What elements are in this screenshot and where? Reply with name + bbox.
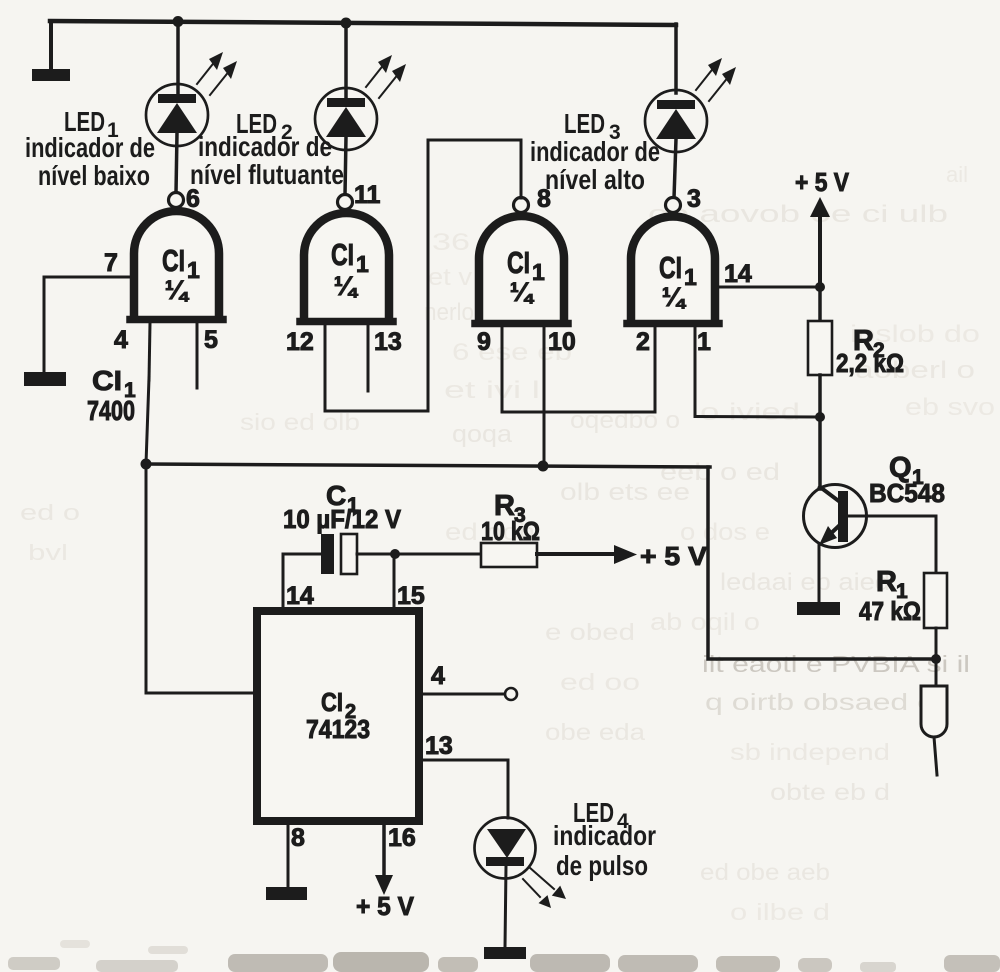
wire: pin15 stub <box>393 554 396 607</box>
svg-text:o ilbe d: o ilbe d <box>730 899 830 925</box>
svg-text:74123: 74123 <box>306 714 370 744</box>
svg-text:3: 3 <box>687 185 701 213</box>
svg-text:sio ed olb: sio ed olb <box>240 409 360 435</box>
svg-text:CI: CI <box>331 237 354 272</box>
op gate CI1a (NAND 1/4 7400) <box>130 193 223 320</box>
node: junction bus/gate3 pin10 <box>538 461 549 472</box>
svg-text:36: 36 <box>432 229 470 256</box>
svg-text:7400: 7400 <box>87 395 135 426</box>
node: junction bus/gate1 pin4 <box>141 459 152 470</box>
capacitor C1 <box>321 534 357 574</box>
svg-text:¼: ¼ <box>662 282 687 312</box>
svg-text:bvl: bvl <box>28 540 68 565</box>
svg-text:2: 2 <box>636 328 650 356</box>
svg-text:ed obe aeb: ed obe aeb <box>700 859 830 885</box>
wire: probe tail <box>934 737 937 775</box>
wire: rail corner down to LED3 <box>674 24 678 93</box>
wire: pin 1 to R2 bottom <box>695 415 820 419</box>
wire: LED4 to ground <box>505 866 506 947</box>
svg-text:14: 14 <box>286 582 314 610</box>
pin 7 wire (gate1 left input) <box>44 277 130 372</box>
svg-text:de pulso: de pulso <box>556 850 648 881</box>
svg-text:ed o: ed o <box>20 500 80 525</box>
node: junction R2/pin1/collector <box>815 412 825 422</box>
wire: pin 13 to LED4 <box>423 760 508 818</box>
wire: long NAND input bus <box>146 464 710 467</box>
svg-text:1: 1 <box>356 251 369 277</box>
wire: R2 to Q1 collector <box>818 417 822 489</box>
LED LED1 <box>146 84 208 146</box>
svg-text:¼: ¼ <box>510 277 535 307</box>
resistor R3 <box>481 543 537 567</box>
svg-text:7: 7 <box>104 249 118 277</box>
svg-text:4: 4 <box>431 662 445 690</box>
svg-text:2,2 kΩ: 2,2 kΩ <box>836 348 904 378</box>
svg-text:BC548: BC548 <box>869 478 945 508</box>
svg-text:CI: CI <box>92 365 122 396</box>
light arrows LED4 <box>523 867 566 908</box>
svg-text:CI: CI <box>659 250 682 285</box>
svg-text:ilt eaotl e PVBIA si il: ilt eaotl e PVBIA si il <box>702 651 970 677</box>
IC CI2 74123 <box>257 611 419 821</box>
node: junction LED2/top rail <box>341 18 352 29</box>
pin 5 stub gate1 <box>196 323 199 388</box>
pin 1 stub gate4 <box>694 327 697 416</box>
svg-text:et ivi l: et ivi l <box>444 377 540 404</box>
svg-text:obe eda: obe eda <box>545 719 645 745</box>
svg-text:q oirtb obsaed o: q oirtb obsaed o <box>705 689 935 715</box>
power +5V arrow (pin 16) <box>375 825 393 895</box>
svg-text:CI: CI <box>162 243 185 278</box>
svg-text:1: 1 <box>187 257 200 283</box>
wire: LED3 to gate CI1d output <box>674 139 676 198</box>
svg-text:nível baixo: nível baixo <box>38 160 150 191</box>
svg-text:CI: CI <box>507 245 530 280</box>
svg-text:12: 12 <box>286 328 314 356</box>
power +5V arrow (top right) <box>810 197 830 287</box>
svg-text:13: 13 <box>374 328 402 356</box>
svg-text:14: 14 <box>724 260 752 288</box>
svg-text:o ivied: o ivied <box>700 399 800 426</box>
svg-text:10 kΩ: 10 kΩ <box>481 516 540 546</box>
wire: Q1 base to R1 <box>848 516 936 573</box>
svg-text:et v: et v <box>428 264 472 291</box>
wire+arrow: R3 to +5V <box>537 545 637 564</box>
svg-text:13: 13 <box>425 732 453 760</box>
svg-text:indicador: indicador <box>553 820 656 851</box>
LED LED4 <box>475 818 536 879</box>
pin 13 stub gate2 <box>367 325 370 391</box>
ground (top left) <box>32 69 70 81</box>
wire: R1 to sense node <box>935 628 938 659</box>
svg-text:16: 16 <box>388 824 416 852</box>
svg-text:1: 1 <box>532 259 545 285</box>
svg-text:ab oqil o: ab oqil o <box>650 609 760 636</box>
svg-text:nível alto: nível alto <box>545 164 645 195</box>
svg-text:10 µF/12 V: 10 µF/12 V <box>283 504 402 534</box>
svg-text:sb independ: sb independ <box>730 739 890 765</box>
op gate CI1c (NAND 1/4 7400) <box>475 198 568 324</box>
op gate CI1b (NAND 1/4 7400) <box>300 195 393 322</box>
light arrows LED2 <box>366 55 406 98</box>
node: sense junction <box>931 654 941 664</box>
pin 9 stub gate3 <box>501 327 504 412</box>
wire: C1 to R3 <box>357 553 481 556</box>
wire: rail to LED2 <box>344 23 348 99</box>
light arrows LED3 <box>696 58 736 101</box>
svg-text:47 kΩ: 47 kΩ <box>859 596 921 626</box>
svg-text:5: 5 <box>204 326 218 354</box>
svg-text:LED: LED <box>564 108 605 139</box>
svg-text:indicador de: indicador de <box>25 132 155 163</box>
svg-text:9: 9 <box>477 328 491 356</box>
wire: LED1 to gate CI1a output <box>176 133 177 193</box>
ground (Q1 emitter) <box>797 602 840 615</box>
resistor R1 <box>924 573 947 628</box>
capacitor C1 wiring: pin14 stub <box>283 554 321 607</box>
svg-text:ed oo: ed oo <box>560 669 640 695</box>
svg-text:8: 8 <box>291 824 305 852</box>
svg-text:obte eb d: obte eb d <box>770 779 890 805</box>
wire: left drop to ground <box>49 21 53 70</box>
svg-text:1: 1 <box>684 264 697 290</box>
resistor R2 <box>808 287 832 417</box>
wire: pin 14 to +5V rail <box>719 286 820 289</box>
svg-text:e obed: e obed <box>545 619 635 645</box>
svg-text:¼: ¼ <box>165 275 190 305</box>
svg-text:11: 11 <box>354 181 381 209</box>
svg-text:4: 4 <box>114 326 128 354</box>
wire: sensor probe lead <box>935 659 938 686</box>
transistor Q1 BC548 <box>804 485 867 603</box>
op gate CI1d (NAND 1/4 7400) <box>627 198 719 324</box>
LED LED3 <box>645 90 707 152</box>
node: junction C1/pin15 <box>390 549 400 559</box>
svg-text:+ 5 V: + 5 V <box>795 167 850 197</box>
node: junction pin14/R2 <box>815 282 825 292</box>
svg-text:eb svo: eb svo <box>905 394 995 421</box>
svg-text:qoqa: qoqa <box>452 421 513 448</box>
svg-text:+ 5 V: + 5 V <box>356 891 415 921</box>
svg-text:eeb o ed: eeb o ed <box>660 459 780 486</box>
svg-text:CI: CI <box>321 687 343 717</box>
pin 4 output wire with open terminal <box>423 688 517 700</box>
svg-text:¼: ¼ <box>334 271 359 301</box>
LED LED2 <box>315 88 377 150</box>
pin 4 stub gate1 <box>149 323 150 380</box>
pin 12 stub gate2 <box>324 325 327 411</box>
wire: LED2 to gate CI1b output <box>345 137 346 195</box>
wire: gate1 pin4 down to CI2 input <box>146 378 253 693</box>
svg-text:nível flutuante: nível flutuante <box>190 159 344 190</box>
wire: top ground rail <box>50 21 676 25</box>
svg-text:nerlo: nerlo <box>424 299 474 326</box>
light arrows LED1 <box>197 52 237 95</box>
wire: rail to LED1 <box>176 21 180 95</box>
svg-text:R: R <box>876 566 897 598</box>
sensor probe electrode <box>921 686 947 737</box>
ground (LED4) <box>484 947 526 959</box>
svg-text:+ 5 V: + 5 V <box>640 541 708 571</box>
svg-text:indicador de: indicador de <box>530 136 660 167</box>
svg-text:indicador de: indicador de <box>198 131 332 162</box>
node: junction LED1/top rail <box>173 16 184 27</box>
wire: pin 9 to pin 2 <box>502 327 655 412</box>
pin 10 stub gate3 <box>543 327 546 465</box>
ground (pin 8) <box>266 887 307 900</box>
pin 8 stub <box>287 825 290 887</box>
ground (pin 7) <box>24 372 66 386</box>
svg-text:1: 1 <box>697 328 711 356</box>
wire: sense node to NAND inputs (long) <box>708 467 936 659</box>
svg-text:10: 10 <box>548 328 576 356</box>
wire: gate3 output loop to pin 12 <box>325 140 521 411</box>
svg-text:15: 15 <box>397 582 425 610</box>
svg-text:ail: ail <box>946 162 968 187</box>
svg-text:ledaai eb aied: ledaai eb aied <box>720 569 890 596</box>
